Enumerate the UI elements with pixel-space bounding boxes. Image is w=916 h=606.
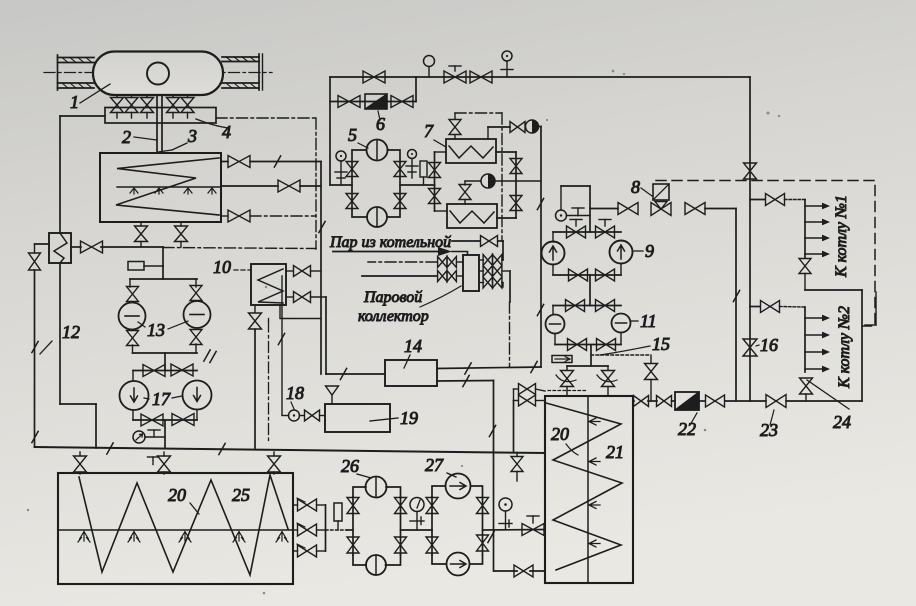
reducing valve 8 bbox=[651, 184, 671, 216]
tank 25 bbox=[58, 473, 293, 584]
label 20 tank25 bbox=[168, 485, 199, 514]
wire ring5 to hx7 branch bbox=[400, 184, 435, 186]
tank25 water line bbox=[58, 529, 293, 531]
break mark bbox=[107, 443, 113, 454]
valve ring27 rb bbox=[477, 535, 489, 551]
orifice box bbox=[128, 262, 163, 271]
label 9 bbox=[634, 241, 654, 261]
pump 5 top bbox=[367, 140, 388, 161]
gauge top header right bbox=[501, 51, 513, 77]
dotted wire to rotameter bbox=[326, 529, 348, 531]
main suction header bbox=[35, 447, 546, 453]
N2 drain valve bbox=[800, 378, 813, 401]
svg-text:7: 7 bbox=[424, 121, 434, 141]
hx10 box bbox=[251, 264, 286, 305]
svg-text:17: 17 bbox=[152, 389, 171, 409]
valve ring11 top right bbox=[596, 300, 615, 312]
ring9 bottom bbox=[553, 264, 621, 276]
tank25 spray arrow 1 bbox=[78, 532, 90, 543]
valve ring17 top left bbox=[143, 365, 165, 377]
ring17 left drop bbox=[132, 371, 134, 382]
main steam riser bbox=[749, 77, 751, 401]
drum blowdown valve 5 bbox=[181, 95, 194, 118]
svg-text:25: 25 bbox=[232, 485, 250, 505]
gauge between 26 27 bbox=[410, 498, 424, 531]
collector leader bbox=[420, 286, 461, 307]
wire ring17 down bbox=[164, 420, 166, 447]
valve ring9 bottom right bbox=[596, 269, 615, 281]
vertical dash-dot x316 bbox=[315, 118, 317, 249]
collector right valve C bbox=[479, 277, 503, 288]
wire box14 left bbox=[326, 373, 385, 375]
svg-text:4: 4 bbox=[222, 122, 231, 142]
label 22 bbox=[678, 413, 697, 439]
break mark bbox=[531, 361, 537, 372]
label 21 bbox=[606, 442, 624, 462]
sensor half dark bbox=[526, 120, 539, 133]
svg-text:21: 21 bbox=[606, 442, 624, 462]
N1 drain valve bbox=[799, 259, 811, 291]
gauge left of ring5 bbox=[335, 151, 347, 185]
svg-text:10: 10 bbox=[213, 257, 231, 277]
valve ring11 top left bbox=[566, 300, 585, 312]
second header line bbox=[330, 77, 416, 102]
wire left riser to ring5 bbox=[330, 184, 352, 186]
valve ring26 rt bbox=[395, 498, 407, 514]
break mark bbox=[278, 333, 284, 344]
drum blowdown valve 2 bbox=[125, 95, 138, 118]
valve ring27 lb bbox=[426, 537, 438, 553]
svg-text:20: 20 bbox=[168, 485, 186, 505]
dashdot drain x268 bbox=[268, 321, 270, 441]
ring27 top bbox=[432, 486, 483, 497]
wire box14 right upper bbox=[437, 367, 541, 369]
valve tank21 steam A bbox=[514, 384, 546, 401]
valve pump13 right discharge bbox=[190, 330, 202, 345]
wire cv header bbox=[567, 365, 608, 367]
gauge cluster pumps9 bbox=[556, 186, 591, 221]
svg-text:13: 13 bbox=[147, 320, 165, 340]
pump 13 right bbox=[184, 301, 211, 328]
dashed box N1 bbox=[656, 181, 875, 327]
pump 5 bottom bbox=[367, 207, 387, 227]
N2 arrow 1 bbox=[805, 315, 830, 322]
pipe right of drum bbox=[222, 54, 263, 90]
break mark bbox=[489, 425, 495, 436]
break mark bbox=[537, 198, 543, 209]
svg-text:11: 11 bbox=[640, 311, 657, 331]
label 18 bbox=[286, 383, 304, 409]
evap drain valve left bbox=[135, 222, 148, 247]
valve ring11 bottom right bbox=[597, 339, 616, 351]
hx10 drain right bbox=[269, 305, 322, 321]
wire ring26 to gauge bbox=[401, 529, 433, 531]
valve hx7 rb bbox=[510, 196, 522, 211]
label 14 bbox=[404, 336, 422, 368]
vertical wire x541 bbox=[540, 127, 542, 368]
wire N1 return bbox=[805, 289, 862, 291]
evap drain valve right bbox=[175, 222, 188, 247]
valve evap top bbox=[228, 156, 250, 168]
valve ring5 rt bbox=[394, 162, 406, 177]
svg-text:24: 24 bbox=[833, 412, 851, 432]
N2 arrow 3 bbox=[805, 349, 830, 356]
drum manhole circle bbox=[147, 63, 169, 85]
label 25 bbox=[232, 485, 250, 505]
valve tank25 inlet mid bbox=[148, 452, 171, 474]
break mark bbox=[537, 304, 543, 315]
svg-text:15: 15 bbox=[652, 334, 670, 354]
wire evap out mid bbox=[221, 185, 321, 187]
label 24 bbox=[807, 380, 851, 432]
N1 arrow 3 bbox=[805, 235, 830, 242]
ring27 left branch bbox=[431, 497, 433, 556]
wire box14 right lower bbox=[437, 380, 494, 383]
valve steam upper bbox=[481, 236, 498, 247]
tank25 outlet mid bbox=[293, 523, 326, 536]
inline cooler box bbox=[49, 233, 71, 263]
wire x326 bbox=[325, 297, 327, 374]
wire sensor to x541 bbox=[539, 126, 542, 128]
label 12 bbox=[40, 322, 80, 354]
gauge right of ring5 bbox=[406, 150, 418, 179]
valve ring17 top right bbox=[171, 364, 193, 376]
dotted wire 15 bbox=[591, 354, 651, 356]
valve below gauge hx7 bbox=[459, 185, 471, 205]
pump 11 right bbox=[612, 314, 631, 333]
wire x503 bbox=[502, 241, 504, 260]
wire evap out bottom dash-dot bbox=[221, 215, 316, 217]
wire rotameter to ring26 bbox=[347, 529, 353, 531]
funnel drain bbox=[326, 386, 339, 404]
svg-text:18: 18 bbox=[286, 383, 304, 403]
tank25 outlet bottom bbox=[293, 544, 326, 557]
wire x510 to hx14 line bbox=[509, 271, 512, 367]
label 19 bbox=[370, 408, 418, 428]
text K kotlu N2 bbox=[836, 306, 853, 389]
ring11 top line bbox=[553, 305, 621, 307]
label 20 tank21 bbox=[551, 424, 578, 455]
hx7 right branch bbox=[496, 152, 516, 218]
wire header to left pipe bbox=[60, 116, 105, 233]
ring26 top bbox=[353, 487, 401, 497]
hx7 top right wire bbox=[488, 127, 510, 139]
label 5 bbox=[348, 125, 368, 148]
pump 13 left bbox=[119, 303, 146, 330]
tank21 arrow 3 bbox=[589, 502, 600, 509]
wire ring27 out bbox=[483, 529, 546, 532]
svg-text:14: 14 bbox=[404, 336, 422, 356]
hx10 top valve bbox=[286, 266, 321, 277]
text parovoy bbox=[363, 289, 422, 306]
label 6 bbox=[376, 111, 385, 134]
drum centerline bbox=[44, 72, 272, 74]
tank25 zigzag bbox=[79, 475, 288, 575]
svg-text:22: 22 bbox=[678, 419, 696, 439]
N1 arrow 1 bbox=[805, 203, 830, 210]
svg-text:3: 3 bbox=[187, 126, 197, 146]
collector left valve B bbox=[362, 271, 463, 282]
svg-text:5: 5 bbox=[348, 125, 357, 145]
svg-text:12: 12 bbox=[62, 322, 80, 342]
valve top header 3 bbox=[470, 71, 492, 83]
label 1 bbox=[70, 84, 110, 112]
valve hx7 lb bbox=[429, 189, 441, 204]
valve hx7 lt bbox=[429, 163, 441, 178]
label 13 bbox=[138, 320, 188, 340]
pump 26 top bbox=[366, 477, 387, 498]
label 2 bbox=[122, 127, 157, 147]
valve ring5 lt bbox=[346, 162, 358, 177]
wire cooler to valve bbox=[71, 246, 81, 248]
N1 branch bbox=[750, 194, 805, 259]
valve bottom feed bbox=[514, 565, 533, 577]
valve riser top bbox=[744, 163, 757, 179]
valve leftmost riser bbox=[29, 253, 41, 270]
tank25 spray arrow 2 bbox=[128, 532, 140, 543]
valve second header right bbox=[391, 96, 413, 108]
ring5 bottom bbox=[352, 209, 400, 218]
valve feed tank21 mid bbox=[522, 516, 544, 536]
valve tank21 steam B bbox=[514, 395, 546, 406]
valve second header left bbox=[338, 96, 360, 108]
break mark double bbox=[204, 350, 216, 363]
svg-text:9: 9 bbox=[645, 241, 654, 261]
pump 9 left bbox=[542, 242, 565, 265]
wire drain drop bbox=[162, 247, 164, 279]
pump13 suction header bbox=[130, 279, 197, 287]
scan speckles bbox=[27, 70, 780, 595]
gauge under ring17 bbox=[133, 431, 165, 443]
svg-text:23: 23 bbox=[760, 420, 778, 440]
break mark bbox=[219, 443, 225, 454]
N2 branch bbox=[750, 301, 805, 373]
rotameter ring5 bbox=[420, 161, 427, 185]
valve above hx7 bbox=[449, 113, 461, 139]
svg-text:К котлу №1: К котлу №1 bbox=[833, 195, 850, 278]
spray arrow 1 bbox=[130, 188, 138, 194]
svg-text:16: 16 bbox=[760, 335, 778, 355]
vertical line x321 bbox=[320, 162, 322, 375]
break mark bbox=[733, 290, 739, 301]
drum blowdown valve 3 bbox=[141, 95, 154, 118]
evaporator coil bbox=[116, 158, 219, 215]
svg-text:1: 1 bbox=[70, 92, 79, 112]
svg-text:Паровой: Паровой bbox=[363, 289, 422, 306]
svg-text:коллектор: коллектор bbox=[358, 308, 429, 325]
valve top header 1 bbox=[363, 71, 385, 83]
pump13 discharge header bbox=[133, 344, 198, 353]
evaporator water line bbox=[117, 186, 221, 188]
ring11 bottom bbox=[555, 333, 621, 345]
hx7 left branch bbox=[435, 152, 448, 211]
valve tank21 outlet bbox=[634, 396, 649, 407]
pump 9 right bbox=[610, 241, 633, 264]
tank25 outlet top bbox=[293, 498, 326, 511]
pump 27 top bbox=[446, 474, 471, 499]
wire left riser bottom jog bbox=[60, 263, 96, 448]
tank21 arrow 1 bbox=[589, 418, 600, 425]
gauge hx7 bbox=[481, 174, 541, 188]
tank25 spray arrow 5 bbox=[276, 532, 288, 543]
wire cooler stub left bbox=[35, 244, 50, 253]
valve hx7 rt bbox=[510, 159, 522, 174]
N1 arrow 4 bbox=[805, 251, 830, 258]
wire evap out top bbox=[221, 161, 321, 163]
pump 27 bottom bbox=[447, 553, 470, 576]
wire header dash-dot to right bbox=[216, 117, 316, 119]
break mark bbox=[32, 431, 38, 442]
hx7 top box bbox=[446, 139, 496, 163]
wire gauge18 bbox=[282, 415, 304, 417]
pump 11 left bbox=[546, 315, 565, 334]
tank25 spray arrow 4 bbox=[233, 532, 245, 543]
ring27 right branch bbox=[482, 497, 484, 556]
label 8 bbox=[631, 177, 652, 197]
control valve left bbox=[556, 366, 576, 396]
label 11 bbox=[631, 311, 657, 331]
steam drum 1 bbox=[93, 52, 223, 96]
valve tank25 inlet right bbox=[268, 452, 281, 474]
valve pump13 left suction bbox=[127, 287, 139, 302]
wire ring11 center down bbox=[590, 345, 592, 366]
valve ring17 bottom left bbox=[141, 414, 163, 426]
control valve right bbox=[597, 366, 617, 396]
valve hx7 out bbox=[510, 122, 525, 133]
tank25 outlet manifold bbox=[325, 505, 327, 551]
pump 26 bottom bbox=[366, 555, 386, 575]
wire to right riser bbox=[786, 400, 862, 402]
valve ring26 rb bbox=[395, 537, 407, 553]
tank21 zigzag bbox=[546, 403, 622, 570]
ring9 left drop bbox=[552, 232, 554, 242]
valve ring17 bottom right bbox=[172, 414, 194, 426]
dotted tank21 top tick bbox=[548, 390, 588, 392]
N1 arrow 2 bbox=[805, 219, 830, 226]
steam collector bbox=[463, 255, 479, 291]
tap tee bbox=[148, 430, 160, 437]
valve left of 8 bbox=[618, 203, 638, 215]
ring27 bottom bbox=[432, 555, 483, 564]
valve ring27 rt bbox=[477, 498, 489, 514]
valve before filter bbox=[657, 396, 672, 407]
valve ring5 rb bbox=[394, 194, 406, 209]
label 10 bbox=[213, 257, 250, 277]
gauge top header bbox=[424, 56, 435, 78]
valve header 4 box bbox=[105, 108, 216, 124]
svg-text:20: 20 bbox=[551, 424, 569, 444]
dirt trap 6 bbox=[365, 94, 387, 109]
valve ring9 bottom left bbox=[569, 269, 588, 281]
svg-text:Пар из котельной: Пар из котельной bbox=[329, 234, 451, 251]
N2 arrow 4 bbox=[805, 366, 830, 373]
label 17 bbox=[144, 389, 182, 409]
left riser top circuit bbox=[329, 77, 331, 185]
N2 arrow 2 bbox=[805, 332, 830, 339]
collector right valve A bbox=[479, 255, 503, 266]
label 15 bbox=[600, 334, 670, 355]
ring5 top bbox=[352, 150, 400, 162]
wire ring9 to ring11 bbox=[589, 275, 591, 306]
wire ring9 up bbox=[589, 186, 591, 232]
tank21 inner pipe bbox=[587, 396, 589, 583]
wire to ring17 bbox=[164, 353, 166, 371]
text K kotlu N1 bbox=[833, 195, 850, 278]
ring11 left drop bbox=[552, 306, 554, 315]
spray arrow 4 bbox=[208, 188, 216, 194]
evaporator box 3 bbox=[100, 153, 221, 222]
break mark bbox=[274, 156, 280, 167]
drum downcomer pipe 2 bbox=[157, 95, 162, 153]
break mark bbox=[488, 531, 494, 542]
right return riser bbox=[861, 290, 863, 401]
wire 8 to riser bbox=[705, 209, 736, 402]
label 4 bbox=[196, 119, 231, 142]
label 3 bbox=[158, 126, 197, 152]
gauge 18 bbox=[289, 410, 300, 421]
valve 16 bbox=[743, 339, 757, 356]
ring17 bottom line bbox=[133, 410, 197, 421]
top header line bbox=[330, 76, 750, 78]
wire valve8 line bbox=[590, 208, 618, 210]
valve evap mid bbox=[278, 180, 300, 192]
steam wire upper bbox=[452, 240, 503, 242]
wire to filter bbox=[672, 400, 676, 402]
label 27 bbox=[425, 455, 456, 477]
label 7 bbox=[424, 121, 446, 147]
valve ring5 lb bbox=[346, 194, 358, 209]
spray arrow 3 bbox=[184, 188, 192, 194]
pump 17 left bbox=[120, 381, 149, 410]
break mark bbox=[319, 221, 325, 232]
pipe left of drum bbox=[58, 55, 95, 90]
bypass valve bbox=[645, 355, 658, 401]
valve pump13 right suction bbox=[190, 286, 202, 301]
break mark bbox=[32, 341, 38, 352]
break mark bbox=[340, 368, 346, 379]
hx10 bottom valve bbox=[286, 292, 326, 303]
wire gauge hx7 left bbox=[465, 181, 481, 185]
box 19 bbox=[325, 404, 390, 432]
svg-text:8: 8 bbox=[631, 177, 640, 197]
break mark bbox=[465, 363, 471, 374]
valve right of 8 bbox=[685, 203, 705, 215]
svg-text:19: 19 bbox=[400, 408, 418, 428]
drum blowdown valve 4 bbox=[167, 95, 180, 118]
svg-text:26: 26 bbox=[341, 456, 359, 476]
ring17 top line bbox=[133, 370, 197, 372]
wire hx10 drain to header bbox=[254, 331, 256, 448]
text kollektor bbox=[358, 308, 429, 325]
valve ring9 top right bbox=[596, 220, 615, 239]
gauge right of 27 bbox=[499, 498, 512, 530]
dashdot from hx7 top bbox=[455, 112, 502, 114]
valve tank25 inlet left bbox=[74, 452, 87, 474]
valve ring27 lt bbox=[426, 498, 438, 514]
wire x515 down to header bbox=[513, 401, 515, 453]
valve after filter bbox=[706, 395, 725, 407]
drain header dash-dot bbox=[101, 247, 316, 249]
valve pump13 left discharge bbox=[127, 331, 139, 346]
drain valve below header bbox=[511, 453, 523, 482]
leftmost riser 12 wire bbox=[34, 270, 36, 447]
box 14 bbox=[385, 360, 437, 386]
filter 22 bbox=[675, 392, 699, 410]
wire tank21 outlet bbox=[633, 400, 657, 402]
wire filter to v23 bbox=[699, 400, 766, 402]
valve evap bottom bbox=[228, 210, 250, 222]
tank 21 bbox=[545, 396, 633, 583]
